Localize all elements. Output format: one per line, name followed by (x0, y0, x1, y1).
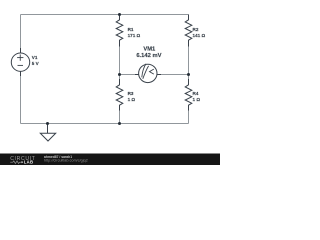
svg-text:R4: R4 (193, 91, 199, 96)
label R3 value (128, 91, 136, 102)
node junction dot middle left (118, 73, 121, 76)
wire bottom rail (21, 123, 189, 125)
label V1 value (32, 55, 40, 66)
resistor R2 (185, 15, 192, 47)
wire middle node to R4 (188, 75, 190, 81)
svg-text:http://circuitlab.com/c/gjq2: http://circuitlab.com/c/gjq2 (44, 159, 88, 163)
resistor R4 (185, 79, 192, 111)
node junction dot middle right (187, 73, 190, 76)
svg-text:1 Ω: 1 Ω (128, 97, 136, 102)
node junction dot top (R1/top rail) (118, 13, 121, 16)
wire top rail (21, 14, 189, 16)
wire R1 to middle rail (119, 46, 121, 75)
wire middle node to R3 (119, 75, 121, 81)
voltmeter VM1 (135, 64, 161, 83)
wire left column bottom (V1 to bottom rail) (20, 71, 22, 124)
wire middle rail left (node to voltmeter) (120, 74, 140, 76)
wire R4 to bottom rail (188, 110, 190, 124)
voltage source V1 (11, 48, 29, 76)
svg-text:171 Ω: 171 Ω (128, 33, 141, 38)
wire middle rail right (voltmeter to node) (157, 74, 189, 76)
ground (40, 124, 55, 142)
watermark CircuitLab logo (10, 156, 35, 164)
label VM1 value (136, 47, 161, 59)
resistor R3 (116, 79, 123, 111)
svg-text:LAB: LAB (24, 160, 34, 165)
svg-text:6.142 mV: 6.142 mV (136, 53, 161, 59)
wire R3 to bottom rail (119, 110, 121, 124)
resistor R1 (116, 15, 123, 47)
svg-text:VM1: VM1 (143, 47, 156, 53)
label R4 value (193, 91, 201, 102)
svg-text:1 Ω: 1 Ω (193, 97, 201, 102)
node junction dot ground (46, 122, 49, 125)
svg-text:V1: V1 (32, 55, 38, 60)
svg-text:R2: R2 (193, 27, 199, 32)
label R1 value (128, 27, 141, 38)
svg-text:R3: R3 (128, 91, 134, 96)
wire R2 to middle rail (188, 46, 190, 75)
svg-text:5 V: 5 V (32, 61, 40, 66)
svg-text:R1: R1 (128, 27, 134, 32)
node junction dot bottom (R3/bottom rail) (118, 122, 121, 125)
label R2 value (193, 27, 206, 38)
svg-text:141 Ω: 141 Ω (193, 33, 206, 38)
watermark bar (0, 154, 220, 166)
wire left column top (V1 to top rail) (20, 15, 22, 54)
